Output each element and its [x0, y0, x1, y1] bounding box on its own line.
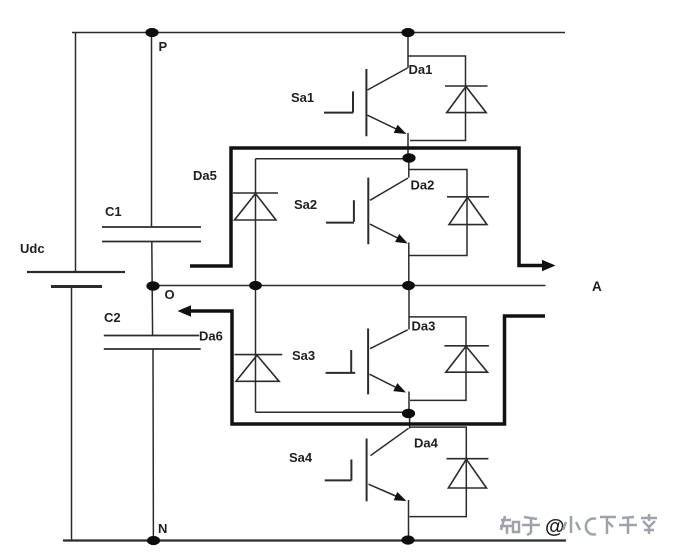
svg-text:Udc: Udc — [20, 241, 45, 256]
wire Sa1 emitter to mid node — [407, 133, 409, 159]
wire left vertical lower (Udc to bottom rail) — [71, 287, 73, 541]
svg-text:C1: C1 — [105, 204, 122, 219]
transistor Sa4 — [325, 439, 367, 502]
diode Da6 — [235, 355, 283, 382]
wire Da6 bottom to Sa3/Sa4 midpoint — [256, 411, 407, 413]
capacitor C2 — [104, 336, 201, 350]
battery Udc long plate — [27, 271, 125, 273]
svg-text:Sa4: Sa4 — [289, 450, 313, 465]
transistor Sa2 — [326, 178, 368, 245]
svg-text:Da4: Da4 — [414, 436, 439, 451]
diode Da2 — [447, 197, 489, 225]
diode Da5 — [233, 193, 278, 220]
wire Da5 branch to Sa1/Sa2 midpoint — [256, 158, 408, 160]
wire Da4 vertical and bottom — [410, 459, 467, 517]
glyph cha — [641, 514, 657, 534]
transistor Sa1 — [324, 69, 366, 136]
battery Udc short plate — [51, 285, 102, 288]
wire Sa2 emitter to O rail — [408, 243, 410, 286]
svg-text:C2: C2 — [104, 310, 121, 325]
svg-text:Da5: Da5 — [193, 168, 217, 183]
wire P node to C1 — [151, 33, 153, 228]
wire Da3 vertical and bottom — [410, 346, 466, 401]
wire O rail — [153, 285, 546, 287]
svg-text:Sa1: Sa1 — [291, 90, 314, 105]
wire Da3 branch top — [409, 317, 466, 346]
wire left vertical upper (Udc to top rail) — [75, 33, 77, 273]
wire thick output path upper (to A) — [190, 148, 543, 266]
wire Da4 branch top — [410, 427, 467, 459]
node A junction on O rail — [402, 281, 415, 290]
wire C2 to N node — [152, 349, 154, 541]
svg-text:Sa3: Sa3 — [292, 348, 315, 363]
capacitor C1 — [102, 227, 201, 242]
glyph C — [586, 519, 596, 535]
svg-text:Da2: Da2 — [411, 178, 435, 193]
glyph hu — [522, 517, 540, 535]
glyph zhi — [500, 516, 519, 534]
node O — [146, 281, 159, 291]
svg-text:P: P — [159, 39, 168, 54]
glyph xiao — [563, 516, 580, 533]
wire Da5 vertical — [255, 159, 257, 286]
svg-text:A: A — [592, 279, 602, 294]
transistor Sa3 — [326, 329, 369, 395]
node P — [145, 28, 158, 37]
node top rail right junction — [401, 28, 414, 37]
node Sa1/Sa2 junction — [402, 153, 415, 163]
wire O node to Sa3 collector — [408, 286, 410, 330]
wire top rail P — [72, 32, 565, 34]
wire Da1 vertical and bottom — [410, 86, 466, 141]
wire top rail to Sa1 collector — [407, 33, 409, 69]
glyph wu — [619, 517, 637, 534]
svg-text:Sa2: Sa2 — [294, 197, 317, 212]
glyph xia — [600, 517, 616, 534]
wire C1 to O node to C2 — [151, 242, 154, 336]
wire mid node to Sa2 collector — [408, 159, 410, 178]
wire Da2 vertical and bottom — [410, 197, 468, 256]
diode Da3 — [444, 346, 489, 372]
wire Da2 branch top — [409, 170, 467, 197]
svg-text:Da3: Da3 — [412, 319, 436, 334]
svg-text:N: N — [158, 521, 167, 536]
wire Da1 branch top — [408, 56, 466, 86]
node N — [147, 536, 160, 545]
wire Sa4 emitter to N rail — [408, 500, 410, 541]
diode Da4 — [447, 459, 489, 488]
svg-text:@: @ — [545, 516, 565, 538]
svg-text:Da6: Da6 — [199, 329, 223, 344]
wire Sa3 emitter to mid node — [408, 392, 410, 414]
diode Da1 — [445, 86, 488, 113]
wire thick output path lower — [191, 311, 545, 424]
watermark zhihu @xiaoC afternoon tea — [500, 516, 540, 535]
wire bottom rail N — [63, 539, 566, 541]
node bottom rail right junction — [401, 535, 414, 544]
node Da5/Da6 junction — [249, 281, 262, 290]
wire mid node to Sa4 collector — [409, 414, 411, 429]
wire Da6 vertical — [255, 286, 257, 413]
svg-text:Da1: Da1 — [409, 62, 433, 77]
svg-text:O: O — [165, 287, 175, 302]
node Sa3/Sa4 junction — [402, 409, 415, 419]
